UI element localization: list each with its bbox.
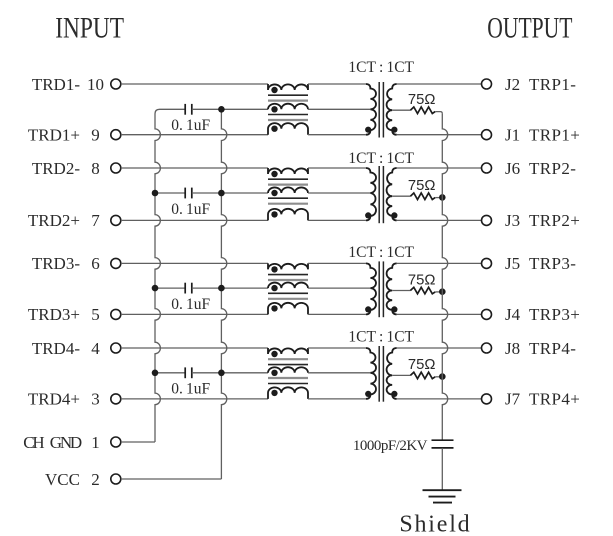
choke CM2 winding C polarity dot — [271, 211, 277, 217]
svg-text:TRP3-: TRP3- — [529, 254, 576, 273]
svg-text:GND: GND — [50, 433, 82, 452]
choke CM2 winding B polarity dot — [271, 190, 277, 196]
choke CM2 core line 2 — [268, 184, 308, 186]
choke CM1 core line 2 — [268, 99, 308, 101]
transformer T3 secondary polarity dot — [391, 306, 397, 312]
transformer T2 primary winding — [366, 168, 376, 220]
wire CH GND pin 1 to ground rail — [121, 441, 155, 443]
transformer T4 primary winding — [366, 348, 376, 399]
wire TRD3+ pin 5 to choke CM3 — [121, 313, 268, 315]
svg-text:Shield: Shield — [399, 511, 471, 536]
svg-text:TRD3-: TRD3- — [32, 254, 81, 273]
resistor R4 75ohm lead from T4 secondary center tap — [392, 374, 410, 376]
wire TRD4+ pin 3 to choke CM4 — [121, 398, 268, 400]
pin J5 TRP3- terminal — [482, 258, 492, 268]
choke CM4 winding A (TRD4-) — [268, 348, 308, 354]
svg-text:TRP2-: TRP2- — [529, 159, 576, 178]
svg-text:3: 3 — [91, 390, 100, 409]
svg-text:TRP1+: TRP1+ — [529, 126, 580, 145]
svg-text:2: 2 — [91, 470, 100, 489]
choke CM1 core line 4 — [268, 119, 308, 121]
svg-text:TRD3+: TRD3+ — [28, 305, 80, 324]
junction C3 line at CH GND rail — [152, 285, 159, 292]
svg-text:TRP2+: TRP2+ — [529, 211, 580, 230]
wire resistor R4 to termination rail — [435, 376, 442, 378]
svg-text:TRD2+: TRD2+ — [28, 211, 80, 230]
svg-text:TRD2-: TRD2- — [32, 159, 81, 178]
pin 1 CH GND terminal — [111, 437, 121, 447]
svg-text:TRP3+: TRP3+ — [529, 305, 580, 324]
wire TRD4- pin 4 to choke CM4 — [121, 347, 268, 349]
wire choke CM4 center winding to transformer T4 primary center tap — [308, 372, 370, 374]
svg-text:1CT : 1CT: 1CT : 1CT — [348, 150, 414, 167]
svg-text:8: 8 — [91, 159, 100, 178]
svg-text:0. 1uF: 0. 1uF — [171, 117, 210, 134]
wire resistor R1 to termination rail corner — [435, 112, 442, 114]
transformer T3 core — [378, 261, 380, 317]
svg-text:J4: J4 — [505, 305, 521, 324]
svg-text:J6: J6 — [505, 159, 520, 178]
capacitor C1 0.1uF plate 2 — [191, 104, 193, 115]
choke CM4 core line 3 — [268, 377, 308, 379]
junction resistor R4 at termination rail — [439, 373, 446, 380]
transformer T3 secondary winding — [387, 263, 397, 314]
pin 2 VCC terminal — [111, 474, 121, 484]
wire C3 right plate to VCC rail and choke CM3 center winding — [192, 287, 268, 289]
choke CM4 core line 1 — [268, 358, 308, 360]
svg-text:J1: J1 — [505, 126, 520, 145]
junction C1 line at VCC rail — [218, 106, 225, 113]
wire transformer T3 secondary top to pin J5 (TRP3-) — [397, 262, 482, 264]
choke CM1 core line 1 — [268, 94, 308, 96]
wire TRD2+ pin 7 to choke CM2 — [121, 219, 268, 221]
pin J2 TRP1- terminal — [482, 79, 492, 89]
choke CM4 core line 2 — [268, 364, 308, 366]
wire choke CM2 center winding to transformer T2 primary center tap — [308, 192, 370, 194]
svg-text:75Ω: 75Ω — [408, 272, 436, 288]
choke CM1 winding C polarity dot — [271, 126, 277, 132]
pin J6 TRP2- terminal — [482, 163, 492, 173]
wire C3 left plate to CH GND rail — [155, 287, 185, 289]
resistor R2 75ohm — [410, 193, 435, 200]
wire choke CM2 to transformer T2 primary top (TRD2-) — [308, 167, 366, 169]
pin J8 TRP4- terminal — [482, 343, 492, 353]
wire choke CM3 center winding to transformer T3 primary center tap — [308, 287, 370, 289]
pin 10 TRD1- terminal — [111, 79, 121, 89]
pin J3 TRP2+ terminal — [482, 215, 492, 225]
transformer T2 secondary winding — [387, 168, 397, 220]
choke CM1 winding B polarity dot — [271, 106, 277, 112]
wire TRD3- pin 6 to choke CM3 — [121, 262, 268, 264]
choke CM3 core line 2 — [268, 279, 308, 281]
svg-text:75Ω: 75Ω — [408, 357, 436, 373]
transformer T4 core — [378, 346, 380, 402]
transformer T4 secondary winding — [387, 348, 397, 399]
wire C2 left plate to CH GND rail — [155, 192, 185, 194]
wire C4 left plate to CH GND rail — [155, 372, 185, 374]
wire VCC pin 2 to VCC rail — [121, 478, 222, 480]
choke CM2 winding B (center) — [268, 187, 308, 193]
svg-text:TRD1+: TRD1+ — [28, 126, 80, 145]
svg-text:TRP1-: TRP1- — [529, 75, 576, 94]
svg-text:J8: J8 — [505, 339, 520, 358]
svg-text:1000pF/2KV: 1000pF/2KV — [353, 438, 428, 454]
choke CM4 winding B polarity dot — [271, 370, 277, 376]
pin 7 TRD2+ terminal — [111, 215, 121, 225]
transformer T1 core — [378, 82, 380, 138]
svg-text:J3: J3 — [505, 211, 520, 230]
svg-text:0. 1uF: 0. 1uF — [171, 201, 210, 218]
pin 5 TRD3+ terminal — [111, 309, 121, 319]
transformer T2 core — [378, 166, 380, 223]
choke CM1 winding A (TRD1-) — [268, 84, 308, 90]
wire TRD2- pin 8 to choke CM2 — [121, 167, 268, 169]
pin 8 TRD2- terminal — [111, 163, 121, 173]
choke CM4 winding C (TRD4+) — [268, 387, 308, 399]
svg-text:1CT : 1CT: 1CT : 1CT — [348, 59, 414, 76]
svg-text:4: 4 — [91, 339, 100, 358]
choke CM2 core line 1 — [268, 178, 308, 180]
junction resistor R3 at termination rail — [439, 288, 446, 295]
pin 6 TRD3- terminal — [111, 258, 121, 268]
capacitor C5 1000pF/2KV plate 1 — [432, 439, 454, 441]
transformer T1 secondary winding — [387, 84, 397, 135]
choke CM3 winding C (TRD3+) — [268, 303, 308, 315]
wire resistor R2 to termination rail — [435, 197, 442, 199]
svg-text:5: 5 — [91, 305, 100, 324]
wire VCC rail (right vertical bus with wire hops) — [221, 109, 226, 479]
svg-text:75Ω: 75Ω — [408, 92, 436, 108]
resistor R3 75ohm — [410, 287, 435, 294]
transformer T1 secondary polarity dot — [391, 127, 397, 133]
capacitor C4 0.1uF plate 1 — [184, 367, 186, 378]
pin 9 TRD1+ terminal — [111, 130, 121, 140]
wire transformer T4 secondary top to pin J8 (TRP4-) — [397, 347, 482, 349]
resistor R1 75ohm lead from T1 secondary center tap — [392, 109, 410, 111]
svg-text:TRD4-: TRD4- — [32, 339, 81, 358]
resistor R3 75ohm lead from T3 secondary center tap — [392, 290, 410, 292]
wire choke CM3 to transformer T3 primary bottom (TRD3+) — [308, 313, 366, 315]
transformer T2 secondary polarity dot — [391, 212, 397, 218]
resistor R1 75ohm — [410, 107, 435, 114]
pin 3 TRD4+ terminal — [111, 394, 121, 404]
choke CM1 winding B (center) — [268, 104, 308, 110]
pin J7 TRP4+ terminal — [482, 394, 492, 404]
capacitor C2 0.1uF plate 1 — [184, 188, 186, 199]
wire TRD1- pin 10 to choke CM1 — [121, 83, 268, 85]
choke CM3 core line 3 — [268, 292, 308, 294]
wire choke CM1 to transformer T1 primary top (TRD1-) — [308, 83, 366, 85]
choke CM3 winding B polarity dot — [271, 285, 277, 291]
svg-text:TRP4+: TRP4+ — [529, 390, 580, 409]
choke CM1 winding C (TRD1+) — [268, 123, 308, 135]
wire C1 right plate to VCC rail and choke CM1 center winding — [192, 108, 268, 110]
choke CM2 winding C (TRD2+) — [268, 209, 308, 221]
svg-text:10: 10 — [87, 75, 104, 94]
wire resistor R3 to termination rail — [435, 291, 442, 293]
wire transformer T1 secondary bottom to pin J1 (TRP1+) — [397, 134, 482, 136]
wire C4 right plate to VCC rail and choke CM4 center winding — [192, 372, 268, 374]
choke CM3 core line 1 — [268, 274, 308, 276]
svg-text:1CT : 1CT: 1CT : 1CT — [348, 244, 414, 261]
choke CM2 winding A (TRD2-) — [268, 168, 308, 174]
wire termination rail (common node of R1-R4 down to shield capacitor, with hops) — [442, 114, 447, 441]
capacitor C3 0.1uF plate 2 — [191, 283, 193, 294]
wire C2 right plate to VCC rail and choke CM2 center winding — [192, 192, 268, 194]
wire transformer T2 secondary top to pin J6 (TRP2-) — [397, 167, 482, 169]
svg-text:0. 1uF: 0. 1uF — [171, 296, 210, 313]
choke CM1 core line 3 — [268, 114, 308, 116]
transformer T3 primary winding — [366, 263, 376, 314]
svg-text:0. 1uF: 0. 1uF — [171, 381, 210, 398]
svg-text:J2: J2 — [505, 75, 520, 94]
svg-text:TRD1-: TRD1- — [32, 75, 81, 94]
svg-text:OUTPUT: OUTPUT — [487, 11, 572, 44]
svg-text:75Ω: 75Ω — [408, 178, 436, 194]
wire choke CM4 to transformer T4 primary top (TRD4-) — [308, 347, 366, 349]
transformer T2 primary polarity dot — [365, 212, 371, 218]
junction C4 line at VCC rail — [218, 370, 225, 377]
svg-text:VCC: VCC — [45, 470, 80, 489]
ground (shield earth symbol) — [423, 489, 462, 491]
wire choke CM3 to transformer T3 primary top (TRD3-) — [308, 262, 366, 264]
wire transformer T4 secondary bottom to pin J7 (TRP4+) — [397, 398, 482, 400]
wire transformer T1 secondary top to pin J2 (TRP1-) — [397, 83, 482, 85]
junction C4 line at CH GND rail — [152, 370, 159, 377]
choke CM4 core line 4 — [268, 383, 308, 385]
capacitor C2 0.1uF plate 2 — [191, 188, 193, 199]
svg-text:J5: J5 — [505, 254, 520, 273]
svg-text:TRD4+: TRD4+ — [28, 390, 80, 409]
junction C3 line at VCC rail — [218, 285, 225, 292]
transformer T1 primary polarity dot — [365, 127, 371, 133]
choke CM3 winding A (TRD3-) — [268, 263, 308, 269]
svg-text:7: 7 — [91, 211, 100, 230]
wire choke CM1 center winding to transformer T1 primary center tap — [308, 108, 370, 110]
svg-text:1CT : 1CT: 1CT : 1CT — [348, 329, 414, 346]
choke CM2 core line 3 — [268, 197, 308, 199]
wire capacitor C5 to shield ground — [441, 448, 443, 490]
choke CM4 winding B (center) — [268, 367, 308, 373]
junction resistor R2 at termination rail — [439, 194, 446, 201]
wire TRD1+ pin 9 to choke CM1 — [121, 134, 268, 136]
capacitor C1 0.1uF plate 1 — [184, 104, 186, 115]
choke CM4 winding A polarity dot — [271, 351, 277, 357]
svg-text:J7: J7 — [505, 390, 521, 409]
svg-text:6: 6 — [91, 254, 100, 273]
pin J1 TRP1+ terminal — [482, 130, 492, 140]
wire choke CM1 to transformer T1 primary bottom (TRD1+) — [308, 134, 366, 136]
svg-text:1: 1 — [91, 433, 100, 452]
choke CM3 winding A polarity dot — [271, 266, 277, 272]
choke CM2 winding A polarity dot — [271, 171, 277, 177]
junction C2 line at CH GND rail — [152, 190, 159, 197]
svg-text:INPUT: INPUT — [55, 11, 124, 44]
junction C2 line at VCC rail — [218, 190, 225, 197]
transformer T4 secondary polarity dot — [391, 391, 397, 397]
transformer T4 primary polarity dot — [365, 391, 371, 397]
transformer T1 primary winding — [366, 84, 376, 135]
choke CM2 core line 4 — [268, 203, 308, 205]
wire choke CM2 to transformer T2 primary bottom (TRD2+) — [308, 219, 366, 221]
choke CM3 winding C polarity dot — [271, 305, 277, 311]
choke CM3 core line 4 — [268, 298, 308, 300]
svg-text:CH: CH — [23, 433, 44, 452]
wire CH GND rail (left vertical bus with wire hops) — [155, 109, 185, 442]
svg-text:9: 9 — [91, 126, 100, 145]
capacitor C5 1000pF/2KV plate 2 — [432, 447, 454, 449]
resistor R4 75ohm — [410, 372, 435, 379]
choke CM3 winding B (center) — [268, 282, 308, 288]
svg-text:TRP4-: TRP4- — [529, 339, 576, 358]
pin 4 TRD4- terminal — [111, 343, 121, 353]
capacitor C4 0.1uF plate 2 — [191, 367, 193, 378]
choke CM1 winding A polarity dot — [271, 87, 277, 93]
pin J4 TRP3+ terminal — [482, 309, 492, 319]
capacitor C3 0.1uF plate 1 — [184, 283, 186, 294]
wire transformer T2 secondary bottom to pin J3 (TRP2+) — [397, 219, 482, 221]
transformer T3 primary polarity dot — [365, 306, 371, 312]
choke CM4 winding C polarity dot — [271, 390, 277, 396]
resistor R2 75ohm lead from T2 secondary center tap — [392, 195, 410, 197]
wire transformer T3 secondary bottom to pin J4 (TRP3+) — [397, 313, 482, 315]
wire choke CM4 to transformer T4 primary bottom (TRD4+) — [308, 398, 366, 400]
